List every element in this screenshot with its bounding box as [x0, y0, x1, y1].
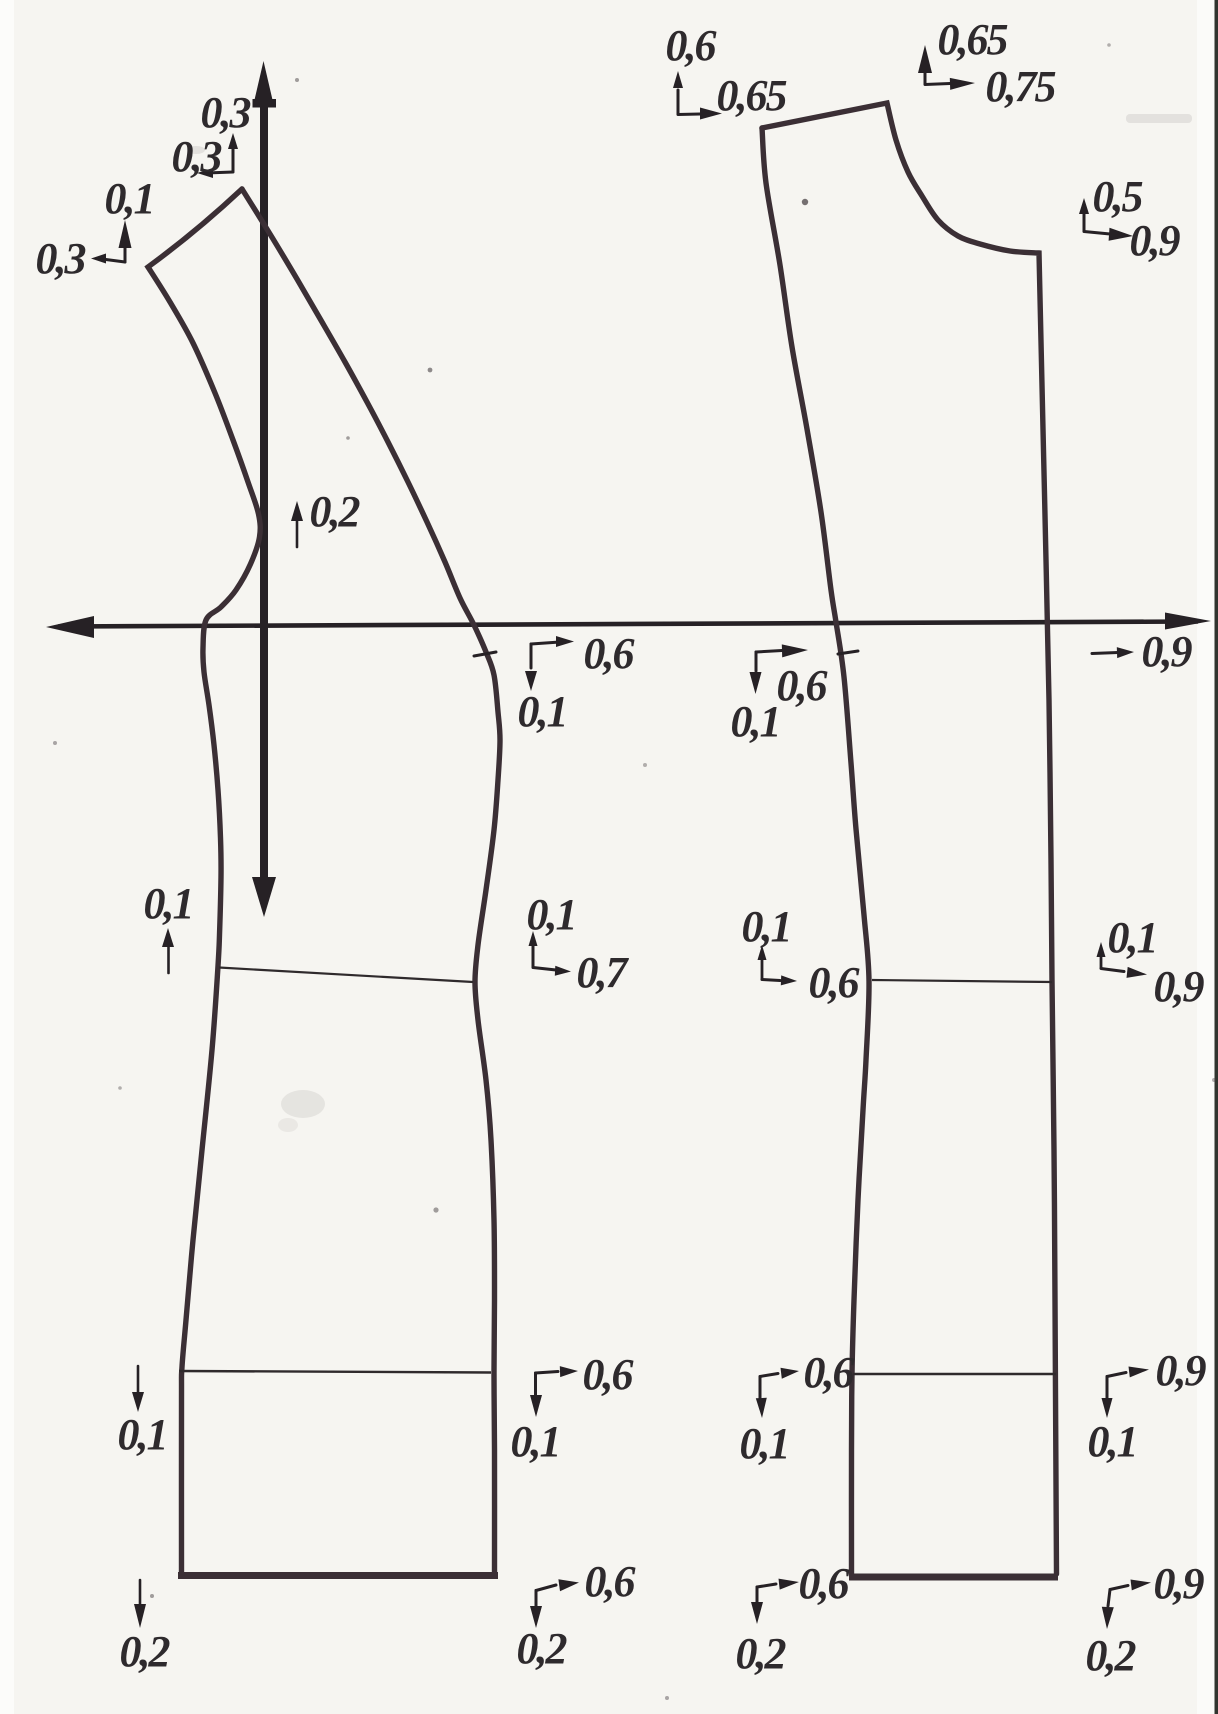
label 0,6 (back below axis) — [584, 629, 635, 678]
label 0,1 (front below axis) — [731, 697, 780, 746]
dim arrow up-right 0,65/0,75 (front top-mid) — [918, 45, 975, 90]
tick on front side seam — [838, 651, 858, 654]
svg-text:0,9: 0,9 — [1130, 216, 1181, 265]
tick on back side seam — [474, 652, 496, 656]
front piece: waist line — [872, 980, 1052, 982]
dim arrow up-left 0,1/0,3 — [91, 220, 132, 264]
svg-text:0,1: 0,1 — [511, 1417, 560, 1466]
label 0,1 (back waist left) — [144, 879, 193, 928]
svg-text:0,9: 0,9 — [1142, 627, 1193, 676]
label 0,65 (front top-mid) — [938, 15, 1008, 64]
svg-text:0,3: 0,3 — [172, 132, 222, 181]
dim arrow right-down 0,6/0,1 (back hip) — [530, 1366, 578, 1417]
svg-text:0,2: 0,2 — [1086, 1631, 1136, 1680]
vertical axis — [252, 61, 276, 917]
dim arrow right-down 0,9/0,2 (front hem right) — [1102, 1580, 1151, 1630]
svg-text:0,75: 0,75 — [986, 62, 1056, 111]
dim arrow right-down 0,9/0,1 (front hip right) — [1102, 1367, 1150, 1419]
label 0,1 (front hip right) — [1088, 1417, 1137, 1466]
dim arrow up-right 0,5/0,9 (front top-right) — [1079, 198, 1133, 241]
svg-text:0,2: 0,2 — [310, 487, 360, 536]
dim arrow up-left 0,3/0,3 — [197, 133, 238, 178]
svg-text:0,5: 0,5 — [1093, 172, 1143, 221]
label 0,9 (front top-right) — [1130, 216, 1181, 265]
dim arrow up-right 0,1/0,9 (front waist right) — [1097, 942, 1148, 978]
label 0,1 (back hip) — [511, 1417, 560, 1466]
svg-text:0,1: 0,1 — [731, 697, 780, 746]
front piece: shoulder, neckline curve and right edge — [762, 103, 1057, 1574]
svg-text:0,6: 0,6 — [799, 1559, 850, 1608]
svg-text:0,1: 0,1 — [105, 174, 154, 223]
svg-text:0,1: 0,1 — [518, 687, 567, 736]
svg-text:0,6: 0,6 — [809, 958, 860, 1007]
label 0,6 (back hip) — [583, 1350, 634, 1399]
label 0,6 (front below axis) — [777, 661, 828, 710]
label 0,2 (back hem left) — [120, 1627, 170, 1676]
svg-text:0,9: 0,9 — [1156, 1346, 1207, 1395]
front piece: left edge — [762, 128, 869, 1574]
label 0,3 (upper) — [201, 88, 251, 137]
label 0,2 (front hem right) — [1086, 1631, 1136, 1680]
svg-text:0,1: 0,1 — [742, 902, 791, 951]
svg-text:0,6: 0,6 — [804, 1348, 855, 1397]
label 0,3 (left of arrow) — [172, 132, 222, 181]
dim arrow up 0,1 (back waist left) — [162, 928, 174, 973]
back piece: shoulder, armhole and left side seam — [148, 189, 260, 1573]
svg-text:0,6: 0,6 — [585, 1557, 636, 1606]
label 0,6 (front top-left) — [666, 21, 717, 70]
label 0,65 (front top-left) — [717, 71, 787, 120]
dim arrow up-right 0,6/0,65 (front top-left) — [673, 71, 722, 120]
dim arrow right-down 0,6/0,1 (front hip left) — [756, 1368, 799, 1418]
svg-text:0,1: 0,1 — [1088, 1417, 1137, 1466]
svg-text:0,7: 0,7 — [577, 948, 630, 997]
svg-text:0,1: 0,1 — [740, 1419, 789, 1468]
dim arrow right-down 0,6/0,1 (front below axis) — [750, 644, 809, 694]
label 0,6 (front waist left) — [809, 958, 860, 1007]
label 0,2 (back hem) — [517, 1624, 567, 1673]
svg-text:0,6: 0,6 — [777, 661, 828, 710]
dim arrow up-right 0,1/0,7 (back waist) — [529, 931, 572, 976]
label 0,1 (front hip left) — [740, 1419, 789, 1468]
label 0,75 (front top-mid) — [986, 62, 1056, 111]
label 0,6 (front hip left) — [804, 1348, 855, 1397]
svg-text:0,6: 0,6 — [583, 1350, 634, 1399]
label 0,3 (far left) — [36, 234, 86, 283]
label 0,5 (front top-right) — [1093, 172, 1143, 221]
dim arrow right-down 0,6/0,2 (back hem) — [530, 1579, 579, 1628]
label 0,1 (front waist right) — [1108, 913, 1157, 962]
dim arrow up 0,2 — [291, 501, 303, 547]
label 0,2 (front hem left) — [736, 1629, 786, 1678]
svg-text:0,3: 0,3 — [201, 88, 251, 137]
svg-text:0,1: 0,1 — [1108, 913, 1157, 962]
svg-text:0,1: 0,1 — [527, 890, 576, 939]
back piece: hem line — [178, 1572, 498, 1579]
front piece: hem line — [849, 1574, 1058, 1581]
dim arrow down 0,2 (back hem left) — [134, 1580, 146, 1628]
svg-text:0,2: 0,2 — [120, 1627, 170, 1676]
dim arrow right-down 0,6/0,1 (back, below axis) — [525, 636, 574, 691]
svg-text:0,9: 0,9 — [1154, 1559, 1205, 1608]
back piece: waist line — [219, 968, 473, 983]
label 0,9 (front hem right) — [1154, 1559, 1205, 1608]
svg-text:0,2: 0,2 — [736, 1629, 786, 1678]
dim arrow right 0,9 (axis right) — [1092, 647, 1134, 658]
svg-text:0,6: 0,6 — [666, 21, 717, 70]
label 0,2 (centre) — [310, 487, 360, 536]
svg-text:0,65: 0,65 — [717, 71, 787, 120]
svg-text:0,65: 0,65 — [938, 15, 1008, 64]
label 0,1 (top-left) — [105, 174, 154, 223]
svg-text:0,3: 0,3 — [36, 234, 86, 283]
label 0,9 (front hip right) — [1156, 1346, 1207, 1395]
label 0,9 (axis right) — [1142, 627, 1193, 676]
horizontal axis — [46, 613, 1211, 639]
svg-text:0,2: 0,2 — [517, 1624, 567, 1673]
svg-text:0,1: 0,1 — [144, 879, 193, 928]
label 0,1 (front waist left) — [742, 902, 791, 951]
dim arrow up-right 0,1/0,6 (front waist left) — [758, 945, 798, 985]
label 0,1 (back below axis) — [518, 687, 567, 736]
label 0,9 (front waist right) — [1154, 962, 1205, 1011]
front piece: hip line — [853, 1373, 1056, 1375]
label 0,6 (front hem left) — [799, 1559, 850, 1608]
label 0,1 (back hip left) — [118, 1410, 167, 1459]
back piece: hip line — [179, 1371, 491, 1373]
dim arrow right-down 0,6/0,2 (front hem left) — [751, 1579, 799, 1624]
svg-text:0,1: 0,1 — [118, 1410, 167, 1459]
svg-text:0,9: 0,9 — [1154, 962, 1205, 1011]
label 0,1 (back waist right) — [527, 890, 576, 939]
label 0,6 (back hem) — [585, 1557, 636, 1606]
back piece: centre-back / right edge — [242, 189, 500, 1573]
dim arrow down 0,1 (back hip left) — [132, 1366, 144, 1412]
svg-text:0,6: 0,6 — [584, 629, 635, 678]
label 0,7 (back waist right) — [577, 948, 630, 997]
